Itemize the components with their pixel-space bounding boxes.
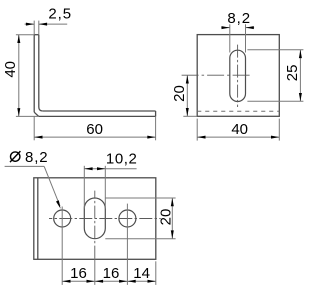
wire ext 60 right	[155, 116, 157, 140]
dim line 20 right	[171, 198, 173, 239]
wire ext 20 bottom (through plate)	[105, 238, 175, 240]
dim line 8,2 tails	[221, 27, 230, 29]
arrow 40 up	[17, 35, 20, 43]
arrow 60 right	[147, 136, 155, 139]
round hole right	[119, 210, 136, 227]
svg-text:2,5: 2,5	[48, 6, 72, 23]
arrow 16 b /14 middle	[119, 280, 127, 283]
arrow 20 up	[171, 198, 174, 206]
arrow 40 right	[271, 136, 279, 139]
wire ext 2,5 right	[38, 21, 40, 35]
wire ext 40 right	[278, 119, 280, 141]
wire ext slot center down	[94, 259, 96, 285]
arrows view1	[17, 23, 155, 139]
plate outline	[197, 35, 279, 117]
arrow 10,2 right	[97, 167, 105, 170]
slot (oblong hole) top view	[84, 198, 105, 239]
svg-text:40: 40	[231, 121, 248, 138]
svg-text:14: 14	[133, 265, 150, 282]
wire ext 10,2 left	[83, 166, 85, 209]
centerline hole1 vertical + ext	[61, 207, 63, 285]
wire ext 25 bottom	[247, 100, 303, 102]
wire ext 25 top	[247, 49, 303, 51]
arrow 14 right	[148, 280, 156, 283]
wire ext right edge down	[155, 261, 157, 285]
dim line 16-16-14	[62, 280, 156, 282]
arrow 20 down	[171, 230, 174, 238]
hidden leg edge (dashed)	[197, 110, 279, 112]
wire ext 20 bottom (plate bottom extended)	[183, 115, 197, 117]
extension lines view1	[16, 21, 156, 141]
diameter symbol	[10, 151, 20, 162]
dim line 2,5	[25, 23, 35, 25]
extension + dim lines view2	[183, 24, 303, 140]
wire ext 40 top	[16, 34, 34, 36]
wire ext 2,5 left	[33, 21, 35, 35]
arrow 40 down	[17, 108, 20, 116]
svg-text:16: 16	[70, 265, 87, 282]
dim line 40	[197, 136, 279, 138]
dim line 10,2 + tail	[84, 168, 105, 170]
wire ext 10,2 right	[104, 166, 106, 209]
dim line 60	[34, 136, 155, 138]
arrow 10,2 left	[84, 167, 92, 170]
arrow 40 left	[197, 136, 205, 139]
angle profile outline	[34, 35, 155, 117]
svg-text:40: 40	[2, 61, 19, 78]
arrow 20 down	[186, 108, 189, 116]
slot (oblong hole) view2	[230, 50, 246, 101]
arrows view3	[62, 167, 174, 282]
arrow 60 left	[34, 136, 42, 139]
svg-text:8,2: 8,2	[227, 10, 251, 27]
wire ext 8,2 left	[229, 24, 231, 52]
wire ext 20 top (through plate)	[105, 197, 175, 199]
leader arrowhead	[56, 200, 61, 209]
bend line	[37, 178, 39, 259]
arrow 8,2 right (outside pointing left)	[246, 26, 254, 29]
round hole left	[54, 210, 71, 227]
svg-text:20: 20	[157, 209, 174, 226]
centerline horizontal view3	[49, 218, 161, 220]
svg-text:8,2: 8,2	[25, 149, 49, 166]
svg-text:20: 20	[171, 85, 188, 102]
wire ext 40 left	[196, 119, 198, 141]
centerline slot vertical (dash-dot)	[94, 191, 96, 260]
svg-text:60: 60	[86, 121, 103, 138]
leader Ø 8,2	[5, 166, 60, 206]
svg-text:10,2: 10,2	[106, 150, 138, 167]
centerline horizontal view2 slot	[182, 74, 251, 76]
arrow 2,5 right	[39, 23, 47, 26]
dim line 20 left	[186, 75, 188, 116]
centerline hole2 vertical + ext	[126, 204, 128, 285]
svg-text:16: 16	[103, 265, 120, 282]
arrows view2	[186, 26, 302, 139]
plate outline top view	[34, 178, 156, 259]
wire ext 40 bottom	[16, 115, 39, 117]
centerline vertical view2 slot	[237, 45, 239, 107]
arrow 25 up	[299, 50, 302, 58]
wire ext 8,2 right	[245, 24, 247, 52]
arrow 8,2 left (outside pointing right)	[222, 26, 230, 29]
dim line 25	[299, 50, 301, 102]
dim line 40	[18, 35, 20, 117]
svg-text:25: 25	[284, 65, 301, 82]
extension + dim lines view3	[62, 166, 175, 285]
arrow 16 a/b middle	[87, 280, 95, 283]
arrow 2,5 left	[26, 23, 34, 26]
arrow 20 up	[186, 75, 189, 83]
arrow 25 down	[299, 93, 302, 101]
wire ext 60 left (leg edge extended)	[33, 116, 35, 140]
arrow 16 a left	[62, 280, 70, 283]
